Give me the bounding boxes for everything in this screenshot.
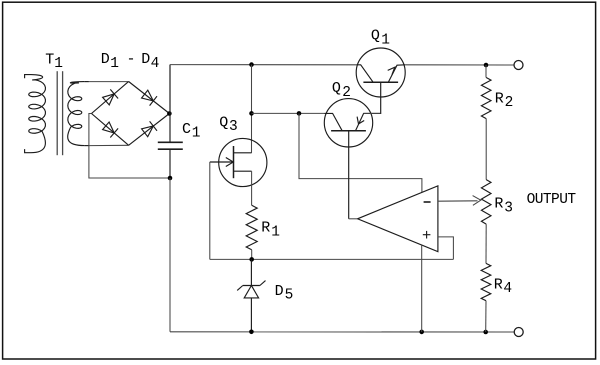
svg-text:1: 1 xyxy=(54,56,63,72)
node bottom rail D5 xyxy=(249,330,254,335)
svg-text:3: 3 xyxy=(504,200,513,216)
node bottom rail op-amp supply xyxy=(419,330,424,335)
wire secondary top to bridge AC node xyxy=(89,81,129,83)
svg-text:R: R xyxy=(494,276,503,293)
svg-text:1: 1 xyxy=(110,56,119,72)
wire op-amp negative supply pin to bottom rail xyxy=(421,245,423,332)
label D1 - D4 xyxy=(101,51,160,72)
svg-text:2: 2 xyxy=(505,95,514,111)
svg-text:Q: Q xyxy=(332,80,341,97)
wire R3 to R4 xyxy=(485,224,487,263)
potentiometer R3 xyxy=(481,180,491,225)
svg-text:4: 4 xyxy=(151,56,160,72)
transistor Q3 label xyxy=(219,114,238,135)
wire top rail xyxy=(170,64,356,66)
svg-text:Q: Q xyxy=(219,114,228,131)
resistor R2 label xyxy=(495,90,514,111)
capacitor C1 xyxy=(158,65,183,178)
terminal positive output xyxy=(514,61,523,70)
svg-text:OUTPUT: OUTPUT xyxy=(527,192,577,208)
wire op-amp output to Q2 base xyxy=(349,218,358,220)
op-amp U1 xyxy=(358,186,438,252)
node top rail / R2 branch xyxy=(484,63,489,68)
transformer T1 core xyxy=(57,71,62,155)
zener diode D5 xyxy=(237,259,265,331)
node reference junction xyxy=(249,257,254,262)
resistor R1 xyxy=(246,205,257,250)
wire bottom rail xyxy=(170,331,514,333)
svg-text:Q: Q xyxy=(371,28,380,45)
resistor R4 label xyxy=(494,276,512,297)
svg-text:1: 1 xyxy=(192,126,201,142)
potentiometer R3 label xyxy=(494,196,513,217)
diode D4 xyxy=(142,121,157,136)
svg-text:T: T xyxy=(45,51,54,68)
svg-text:1: 1 xyxy=(271,224,280,240)
svg-text:C: C xyxy=(182,121,191,138)
wire op-amp noninverting input jog to reference xyxy=(438,237,454,260)
wire R2 top lead xyxy=(485,65,487,78)
svg-text:-: - xyxy=(127,51,136,68)
node raw supply branch at x251 xyxy=(249,111,254,116)
svg-text:1: 1 xyxy=(381,32,390,48)
wire secondary bottom to bridge AC node xyxy=(89,144,129,146)
wire node to Q2 collector xyxy=(252,112,325,114)
wire Q3 gate down to reference node xyxy=(209,162,211,259)
node bridge positive corner xyxy=(167,111,172,116)
transistor Q1 label xyxy=(371,28,390,49)
transformer T1 primary winding xyxy=(25,75,46,153)
svg-text:4: 4 xyxy=(503,281,512,297)
diode D3 xyxy=(103,122,119,138)
diode D1 xyxy=(103,89,119,105)
transformer T1 secondary winding xyxy=(68,82,89,146)
wire reference node horizontal xyxy=(210,258,454,260)
wire Q1 base to Q2 emitter xyxy=(364,112,381,114)
svg-text:R: R xyxy=(261,220,270,237)
svg-text:R: R xyxy=(495,90,504,107)
wire op-amp inverting input to R3 wiper xyxy=(438,196,481,206)
transistor Q3 (JFET) xyxy=(210,138,267,186)
resistor R4 xyxy=(481,263,491,300)
resistor R1 label xyxy=(261,220,280,241)
transformer T1 label xyxy=(45,51,63,72)
svg-text:R: R xyxy=(494,196,503,213)
transistor Q2 xyxy=(324,99,380,219)
svg-text:5: 5 xyxy=(285,288,294,304)
wire Q3 source down to R1 xyxy=(251,171,253,205)
transistor Q2 label xyxy=(332,80,351,101)
zener diode D5 label xyxy=(275,283,294,304)
svg-text:D: D xyxy=(141,51,150,68)
svg-text:D: D xyxy=(275,283,284,300)
wire Q3 drain to top rail xyxy=(251,65,253,153)
wire bridge positive corner up to top rail xyxy=(168,65,171,114)
wire op-amp positive supply xyxy=(299,113,422,192)
wire R2 to R3 xyxy=(485,119,487,180)
node C1 bottom junction xyxy=(168,176,173,181)
diode D2 xyxy=(142,90,157,105)
wire negative vertical down to bottom rail xyxy=(169,178,171,332)
svg-text:3: 3 xyxy=(229,119,238,135)
svg-text:D: D xyxy=(101,51,110,68)
bridge rectifier edges xyxy=(92,82,170,146)
wire R4 bottom lead xyxy=(485,301,487,332)
wire bridge negative corner down to ground node xyxy=(89,114,170,179)
wire R1 bottom lead xyxy=(251,250,253,260)
resistor R2 xyxy=(481,78,491,119)
node bottom rail R4 xyxy=(483,330,488,335)
terminal negative output xyxy=(514,328,523,337)
node top rail / Q3 drain branch xyxy=(249,62,254,67)
node op-amp supply branch xyxy=(297,111,302,116)
capacitor C1 label xyxy=(182,121,201,142)
transistor Q1 xyxy=(356,48,405,113)
